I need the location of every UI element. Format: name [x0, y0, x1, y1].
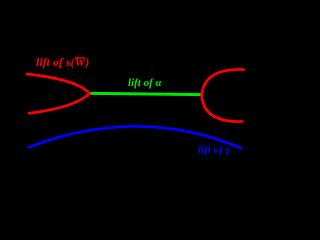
label: lift of s(W): [36, 56, 89, 68]
wire: lift of alpha - green horizontal segment: [91, 93, 202, 94]
label: lift of alpha: [128, 77, 162, 89]
diagram canvas: [0, 0, 273, 191]
label: lift of gamma: [198, 144, 230, 156]
curve: lift of s(W) - left red fold (left-opening beak): [27, 74, 90, 113]
curve: right red fold (right-opening C): [202, 69, 244, 121]
curve: lift of gamma - blue arc: [29, 126, 242, 148]
overline bar on W: [75, 57, 85, 58]
